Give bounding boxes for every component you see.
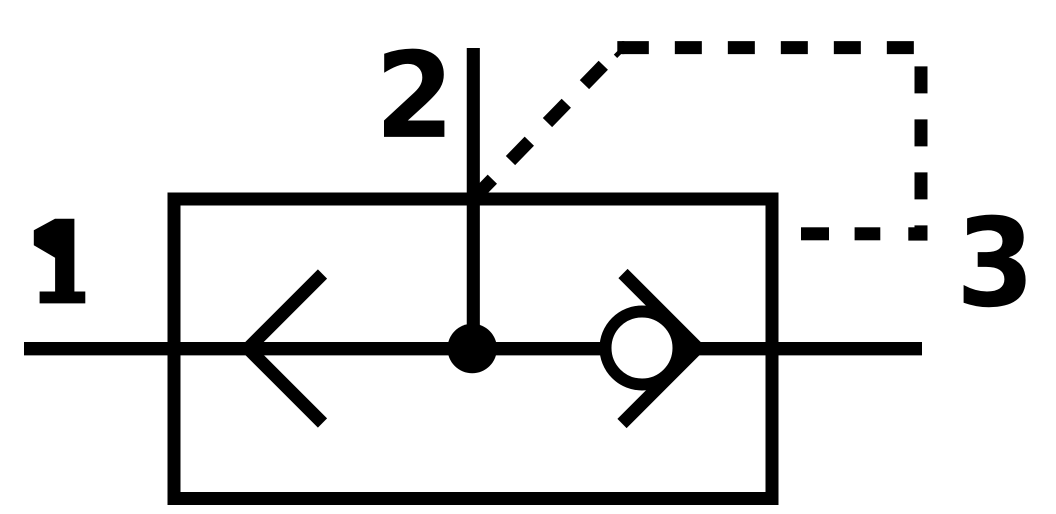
label: port 2 — [384, 49, 444, 137]
pilot line bottom dash B1 — [801, 227, 829, 240]
check valve circle — [606, 312, 679, 385]
node: junction dot — [448, 324, 497, 373]
pilot line (dashed) from port 2 junction to port 3 side — [474, 48, 922, 238]
pilot line elbow dash extension — [617, 41, 624, 54]
check valve poppet arrow (points to port 3) — [622, 274, 698, 424]
label: port 3 — [964, 215, 1026, 308]
wire: port 3 line (right segment of main flow path) — [676, 342, 922, 355]
label: port 1 — [34, 219, 86, 304]
left flow arrow (exhaust arrow pointing to port 1) — [248, 274, 323, 423]
valve body (envelope rectangle) — [174, 199, 772, 499]
pilot line bottom dash B2 — [855, 227, 881, 240]
wire: port 2 vertical line — [467, 48, 480, 349]
wire: port 1 line (left segment of main flow path) — [24, 342, 605, 355]
pilot line corner dash — [908, 227, 927, 240]
